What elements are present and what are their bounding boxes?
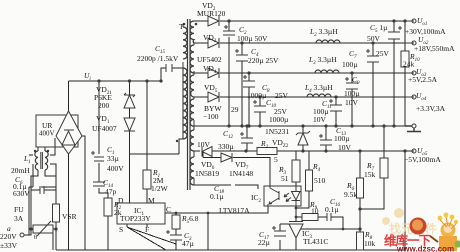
svg-text:3A: 3A: [14, 214, 24, 223]
svg-text:47p: 47p: [105, 187, 117, 196]
svg-text:400V: 400V: [107, 164, 124, 173]
svg-text:+18V,550mA: +18V,550mA: [414, 44, 455, 53]
svg-text:1000µ: 1000µ: [247, 91, 267, 100]
svg-text:LTV817A: LTV817A: [219, 206, 250, 215]
svg-text:400V: 400V: [39, 130, 55, 138]
svg-text:R56.8: R56.8: [181, 214, 199, 225]
svg-text:+5V,2.5A: +5V,2.5A: [408, 75, 438, 84]
svg-text:VD3: VD3: [203, 33, 217, 44]
svg-text:33µ: 33µ: [107, 154, 120, 163]
svg-text:1N5819: 1N5819: [195, 169, 219, 178]
svg-text:C5 1µ: C5 1µ: [370, 23, 388, 34]
svg-text:0.1µ: 0.1µ: [325, 205, 339, 214]
svg-text:Ui: Ui: [84, 71, 91, 82]
svg-text:L4 3.3µH: L4 3.3µH: [304, 83, 333, 94]
svg-text:±33V: ±33V: [0, 241, 18, 250]
svg-text:Uo4: Uo4: [416, 91, 427, 102]
svg-text:R4: R4: [312, 162, 321, 173]
svg-text:L3 3.3µH: L3 3.3µH: [308, 55, 337, 66]
svg-text:10k: 10k: [364, 239, 376, 248]
svg-text:10V: 10V: [197, 140, 211, 149]
svg-text:Uo1: Uo1: [417, 16, 427, 27]
svg-text:−5V,100mA: −5V,100mA: [404, 155, 441, 164]
svg-text:−100: −100: [203, 112, 219, 121]
svg-text:220V: 220V: [0, 232, 17, 241]
svg-text:IC2: IC2: [251, 193, 262, 204]
svg-text:100µ 50V: 100µ 50V: [237, 34, 268, 43]
svg-text:MUR120: MUR120: [197, 9, 226, 18]
svg-text:22µ: 22µ: [258, 238, 271, 247]
svg-text:510: 510: [314, 176, 326, 185]
svg-text:200: 200: [98, 101, 110, 110]
svg-text:S: S: [119, 225, 123, 234]
svg-text:0.1µ: 0.1µ: [210, 192, 224, 201]
svg-text:R2: R2: [260, 139, 269, 150]
svg-text:15k: 15k: [364, 170, 376, 179]
svg-text:51: 51: [281, 174, 289, 183]
svg-text:+3.3V,3A: +3.3V,3A: [416, 104, 446, 113]
svg-text:25V: 25V: [376, 49, 390, 58]
svg-text:C7: C7: [349, 49, 357, 60]
svg-text:10V: 10V: [345, 98, 359, 107]
svg-text:TL431C: TL431C: [303, 237, 328, 246]
svg-text:θ: θ: [34, 234, 37, 241]
svg-text:50V: 50V: [367, 34, 381, 43]
svg-text:www.dzsc.com: www.dzsc.com: [396, 245, 454, 252]
svg-text:VSR: VSR: [62, 212, 77, 221]
svg-text:L2 3.3µH: L2 3.3µH: [309, 27, 338, 38]
svg-text:10V: 10V: [313, 115, 327, 124]
svg-text:100µ: 100µ: [342, 60, 358, 69]
svg-text:M: M: [148, 196, 155, 205]
svg-text:TOP233Y: TOP233Y: [120, 214, 151, 223]
svg-text:1/2W: 1/2W: [151, 184, 169, 193]
svg-text:F: F: [145, 225, 149, 234]
svg-text:630V: 630V: [13, 189, 30, 198]
svg-text:330µ: 330µ: [218, 142, 234, 151]
svg-text:UF5402: UF5402: [197, 55, 222, 64]
svg-text:FU: FU: [14, 205, 24, 214]
svg-text:UF4007: UF4007: [92, 124, 117, 133]
svg-text:10: 10: [311, 207, 319, 216]
svg-text:+30V,100mA: +30V,100mA: [405, 27, 446, 36]
svg-text:9.5k: 9.5k: [344, 190, 357, 199]
svg-text:1N4148: 1N4148: [229, 169, 253, 178]
svg-text:T: T: [179, 22, 184, 31]
svg-text:10V: 10V: [338, 143, 352, 152]
svg-text:C: C: [166, 205, 171, 214]
svg-text:1N5231: 1N5231: [265, 127, 289, 136]
svg-text:47µ: 47µ: [182, 239, 195, 248]
svg-text:C9: C9: [352, 75, 360, 86]
svg-text:100µ: 100µ: [344, 89, 360, 98]
svg-text:220µ 25V: 220µ 25V: [248, 56, 279, 65]
svg-text:5: 5: [274, 155, 278, 164]
svg-text:L1: L1: [23, 154, 31, 165]
svg-text:20mH: 20mH: [11, 166, 30, 175]
svg-text:D: D: [118, 196, 124, 205]
svg-text:24k: 24k: [403, 60, 415, 69]
svg-text:25V: 25V: [275, 91, 289, 100]
svg-text:1000µ: 1000µ: [269, 115, 289, 124]
svg-text:2200p /1.5kV: 2200p /1.5kV: [137, 54, 179, 63]
svg-text:C12: C12: [223, 129, 234, 140]
svg-text:VD5: VD5: [204, 83, 218, 94]
svg-text:29: 29: [231, 105, 239, 114]
